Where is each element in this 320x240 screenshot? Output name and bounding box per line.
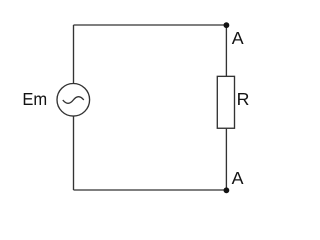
svg-text:A: A	[232, 28, 244, 48]
svg-text:Em: Em	[22, 89, 47, 110]
svg-text:A: A	[232, 168, 244, 188]
svg-text:R: R	[237, 89, 250, 109]
